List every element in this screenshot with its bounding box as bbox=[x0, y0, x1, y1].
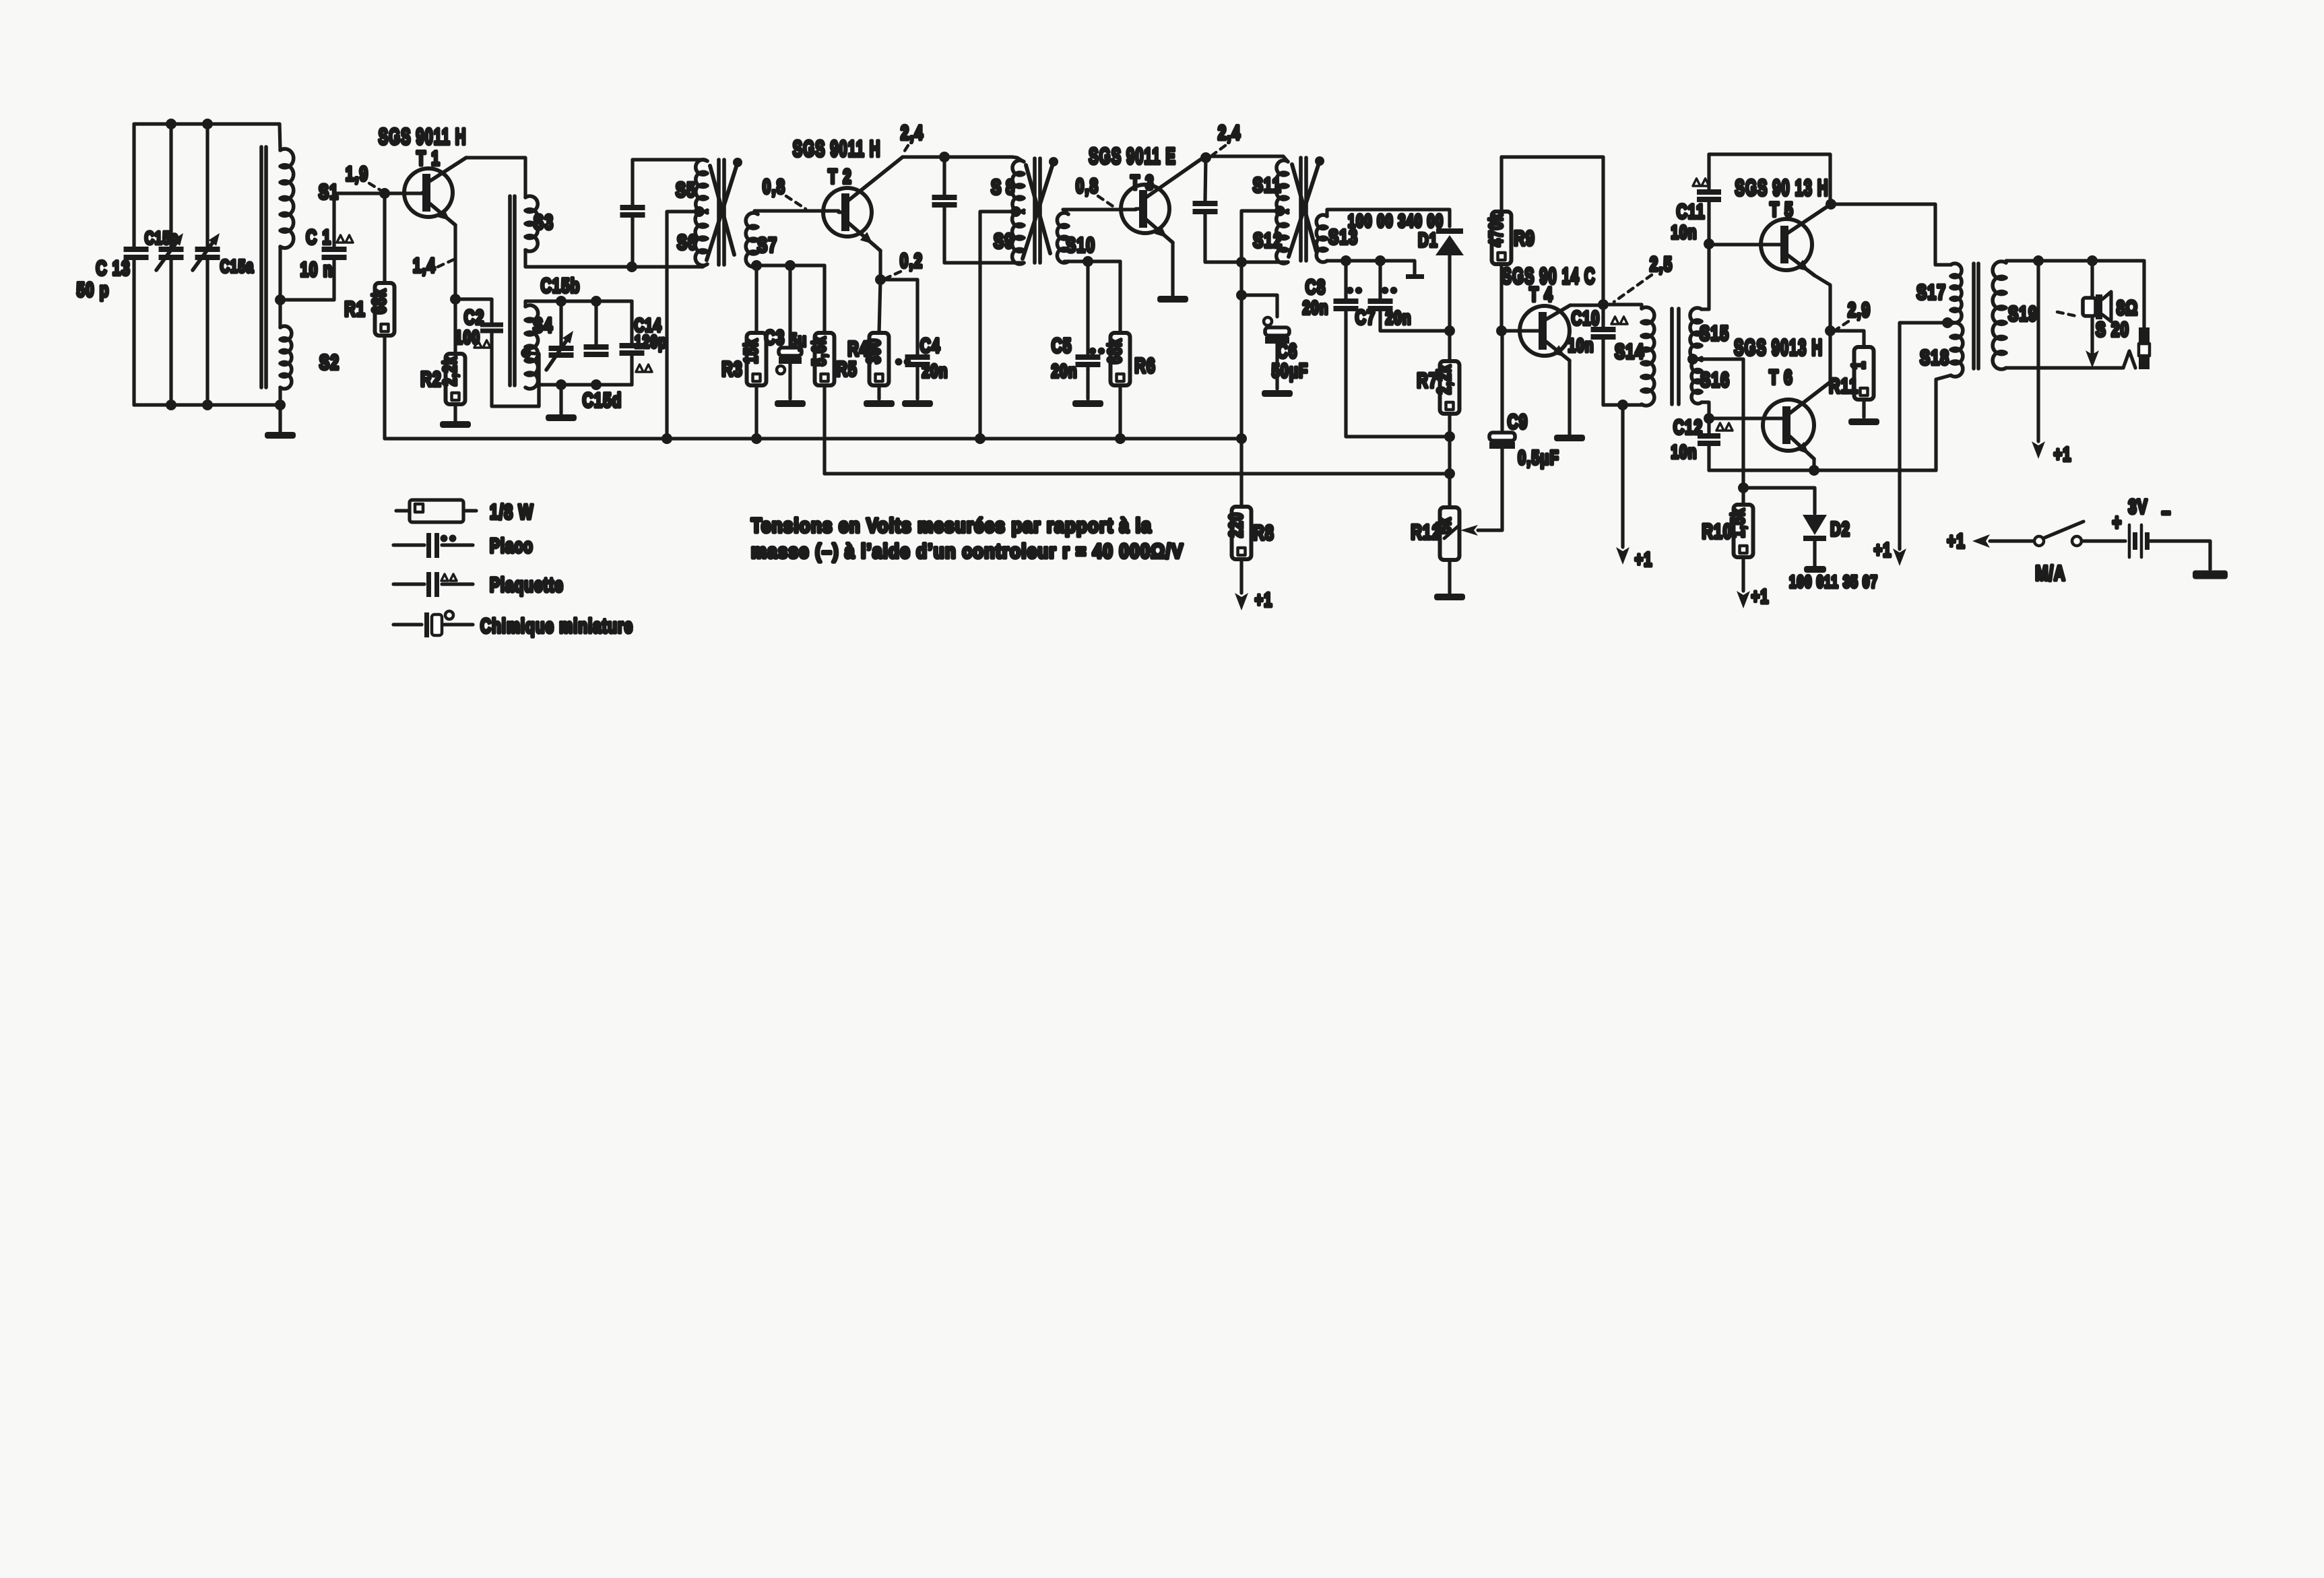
wire S15 top to C11 branch bbox=[1702, 247, 1709, 309]
svg-text:SGS 90 13 H: SGS 90 13 H bbox=[1735, 175, 1828, 200]
svg-text:C15b: C15b bbox=[541, 274, 581, 297]
wire T5 emitter down bbox=[1815, 276, 1830, 382]
svg-text:T 5: T 5 bbox=[1770, 198, 1793, 221]
node block top cap bbox=[591, 296, 602, 307]
ground C6 bbox=[1262, 390, 1293, 397]
node block bottom cap bbox=[591, 379, 602, 390]
ground C15 block bbox=[559, 385, 562, 414]
node bus1 right end bbox=[1236, 433, 1247, 444]
svg-text:C15d: C15d bbox=[583, 389, 622, 412]
inductor S17 bbox=[1951, 263, 1962, 323]
capacitor C13 bbox=[124, 247, 149, 252]
svg-text:68k: 68k bbox=[1105, 338, 1126, 364]
wire emitter node to C2 bbox=[455, 299, 492, 322]
svg-text:C3: C3 bbox=[765, 326, 785, 349]
resistor R11 1 bbox=[1830, 331, 1864, 347]
transistor T1 SGS 9011 H bbox=[404, 168, 453, 217]
capacitor C6 50uF chimique bbox=[1264, 317, 1272, 325]
svg-text:20n: 20n bbox=[1051, 361, 1077, 382]
node C7 top bbox=[1375, 255, 1386, 266]
svg-text:S5: S5 bbox=[676, 178, 696, 201]
inductor S1 bbox=[280, 124, 280, 150]
wire speaker to bottom rail bbox=[2090, 319, 2094, 356]
svg-text:S4: S4 bbox=[533, 313, 553, 337]
svg-text:1,4: 1,4 bbox=[413, 254, 436, 277]
node T4 base bbox=[1496, 325, 1507, 336]
node S8 cap top bbox=[939, 152, 950, 162]
svg-text:R8: R8 bbox=[1253, 521, 1274, 544]
svg-text:C4: C4 bbox=[920, 334, 941, 357]
node T1 emitter junction bbox=[450, 294, 461, 305]
svg-text:C15a: C15a bbox=[220, 256, 254, 276]
trimmer capacitor C15c bbox=[159, 247, 184, 252]
svg-text:C5: C5 bbox=[1052, 334, 1072, 357]
capacitor C1 bbox=[322, 247, 347, 252]
battery 3V bbox=[2128, 525, 2131, 557]
node C5 top bbox=[1083, 256, 1093, 267]
svg-text:D1: D1 bbox=[1418, 230, 1438, 251]
transformer core S1/S2 bbox=[259, 147, 263, 387]
svg-text:120p: 120p bbox=[635, 332, 667, 352]
resistor R5 5,6k bbox=[822, 265, 826, 333]
inductor S10 bbox=[1057, 213, 1068, 263]
capacitor S5 tank bbox=[631, 160, 634, 205]
node R7 bottom bbox=[1444, 431, 1455, 442]
wire output stage bottom rail bbox=[1709, 468, 1936, 472]
wire S13 bottom rail bbox=[1327, 261, 1415, 274]
inductor S16 bbox=[1691, 359, 1702, 404]
wire S13 box top bbox=[1327, 210, 1450, 226]
svg-text:1/8 W: 1/8 W bbox=[490, 500, 534, 524]
svg-text:R4: R4 bbox=[847, 337, 869, 360]
jack contact spring bbox=[2120, 351, 2135, 368]
resistor R8 220 bbox=[1239, 439, 1243, 507]
node S2 bottom bbox=[275, 400, 286, 410]
node T6 base bbox=[1704, 413, 1714, 424]
svg-text:+1: +1 bbox=[1751, 586, 1770, 608]
legend resistor 1/8 W bbox=[396, 509, 410, 512]
transistor T4 SGS 90 14 C bbox=[1520, 306, 1570, 356]
wire S16 bottom to base node bbox=[1702, 402, 1709, 418]
node bus1 R6 bbox=[1115, 433, 1126, 444]
node speaker rail left bbox=[2033, 255, 2044, 266]
inductor S7 bbox=[746, 213, 758, 267]
resistor R3 15k bbox=[754, 265, 758, 333]
resistor R4 390 bbox=[879, 280, 880, 333]
svg-text:2,2k: 2,2k bbox=[440, 356, 461, 386]
svg-text:R2: R2 bbox=[420, 367, 442, 391]
svg-text:15k: 15k bbox=[741, 338, 762, 364]
wire tap to bus via C6 tee bbox=[1241, 211, 1280, 439]
ground antenna block bbox=[278, 405, 282, 431]
node S15/S16 tap bbox=[1687, 354, 1698, 365]
legend capacitor Chimique miniature bbox=[393, 623, 422, 626]
svg-text:S12: S12 bbox=[1253, 228, 1283, 252]
svg-text:R6: R6 bbox=[1134, 354, 1156, 377]
wire S5 block top bbox=[633, 158, 703, 161]
svg-text:C15c: C15c bbox=[145, 228, 179, 248]
svg-text:T 6: T 6 bbox=[1769, 366, 1793, 389]
svg-text:+: + bbox=[2112, 511, 2123, 534]
svg-text:R5: R5 bbox=[836, 357, 858, 381]
wire base node to T1 bbox=[385, 191, 422, 195]
svg-text:S9: S9 bbox=[994, 229, 1014, 253]
svg-text:C11: C11 bbox=[1677, 200, 1706, 223]
transformer core S3/S4 bbox=[508, 196, 512, 385]
svg-text:T 1: T 1 bbox=[416, 147, 440, 170]
inductor S6 bbox=[695, 212, 707, 265]
ground R2 bbox=[453, 404, 457, 422]
ground T4 emitter bbox=[1554, 435, 1585, 441]
svg-text:R3: R3 bbox=[721, 357, 743, 381]
wire T4 emitter to ground bbox=[1568, 360, 1571, 434]
wire switch to battery bbox=[2081, 539, 2125, 542]
wire T6 base bbox=[1709, 416, 1782, 420]
svg-text:+1: +1 bbox=[2054, 444, 2072, 466]
svg-text:S2: S2 bbox=[319, 350, 340, 374]
wire T2 emitter bbox=[878, 251, 882, 280]
inductor S9 bbox=[1012, 212, 1024, 264]
svg-text:100 011 35 07: 100 011 35 07 bbox=[1789, 572, 1878, 591]
node C11 bottom bbox=[1704, 239, 1714, 249]
wire T1 collector to S3 bbox=[466, 158, 525, 197]
wire S19 bottom rail bbox=[2006, 366, 2120, 369]
node bottom junction C15a bbox=[202, 400, 213, 410]
svg-text:S11: S11 bbox=[1253, 173, 1282, 197]
svg-text:Plaquette: Plaquette bbox=[490, 573, 564, 596]
wire T5 collector to S17 bbox=[1831, 204, 1951, 265]
capacitor C2 100 bbox=[480, 323, 503, 327]
svg-text:C8: C8 bbox=[1305, 276, 1326, 298]
node T2 emitter junction bbox=[875, 274, 886, 285]
svg-text:0,8: 0,8 bbox=[1076, 175, 1099, 197]
trimmer capacitor C15 block bbox=[559, 301, 562, 346]
node bus1 S5 drop bbox=[661, 433, 672, 444]
svg-text:S15: S15 bbox=[1700, 321, 1729, 345]
svg-text:T 4: T 4 bbox=[1529, 283, 1553, 306]
inductor S8 bbox=[1012, 160, 1024, 212]
wire T6 emitter to rail bbox=[1812, 459, 1815, 470]
svg-text:68k: 68k bbox=[369, 288, 390, 314]
svg-text:8Ω: 8Ω bbox=[2117, 296, 2138, 319]
core output transformer bbox=[1972, 263, 1976, 369]
wire C8 to R7 bottom bbox=[1346, 311, 1448, 437]
wire T3 collector rail bbox=[1205, 154, 1283, 158]
wire C15b block top bbox=[525, 301, 632, 307]
diode D1 bbox=[1436, 228, 1463, 234]
svg-text:R11: R11 bbox=[1829, 374, 1859, 398]
wire tap to +1 bbox=[1900, 323, 1947, 549]
loudspeaker S20 8 ohm bbox=[2090, 261, 2094, 296]
node bus2 right end bbox=[1444, 468, 1455, 479]
ground T3 emitter bbox=[1157, 296, 1188, 303]
node S11 cap top bbox=[1200, 152, 1211, 163]
svg-text:S19: S19 bbox=[2008, 302, 2038, 325]
capacitor block middle bbox=[594, 301, 598, 344]
svg-text:S6: S6 bbox=[677, 230, 697, 254]
wire battery to ground bbox=[2149, 541, 2210, 569]
inductor S2 bbox=[280, 326, 292, 389]
svg-text:SGS 9011 E: SGS 9011 E bbox=[1089, 144, 1176, 168]
svg-text:S 8: S 8 bbox=[991, 175, 1015, 199]
svg-text:10n: 10n bbox=[1671, 222, 1697, 243]
wire S5/S6 tap to bus bbox=[667, 212, 699, 439]
node S17/S18 tap bbox=[1942, 317, 1953, 328]
svg-text:C12: C12 bbox=[1673, 416, 1703, 439]
wire main bus 1 bbox=[386, 437, 1241, 440]
svg-text:R1: R1 bbox=[344, 297, 366, 321]
svg-text:C9: C9 bbox=[1508, 410, 1528, 433]
inductor S14 bbox=[1642, 307, 1654, 406]
svg-text:C10: C10 bbox=[1572, 308, 1601, 329]
node R10 branch bbox=[1738, 482, 1749, 493]
ground C5 bbox=[1072, 400, 1103, 407]
node R3 top bbox=[751, 260, 762, 271]
wire T5 box top bbox=[1709, 154, 1830, 203]
node S11/S12 tap bbox=[1274, 206, 1285, 216]
capacitor C3 5u chimique bbox=[788, 265, 792, 346]
wire T4 collector to node bbox=[1570, 303, 1602, 307]
svg-text:S14: S14 bbox=[1615, 340, 1644, 363]
earphone jack bbox=[2142, 261, 2145, 327]
inductor S5 bbox=[696, 160, 707, 212]
wire C2 to block bottom bbox=[492, 334, 539, 406]
core driver transformer bbox=[1670, 309, 1674, 404]
svg-text:S7: S7 bbox=[757, 233, 777, 257]
svg-text:+1: +1 bbox=[1947, 530, 1966, 553]
svg-text:100 00 340 00: 100 00 340 00 bbox=[1348, 211, 1444, 232]
svg-text:C 1: C 1 bbox=[306, 226, 331, 249]
svg-text:2,4: 2,4 bbox=[901, 121, 924, 144]
inductor S3 bbox=[525, 196, 538, 251]
resistor R7 2,2k bbox=[1448, 331, 1451, 361]
svg-text:S10: S10 bbox=[1066, 233, 1095, 257]
svg-text:0,5μF: 0,5μF bbox=[1518, 447, 1559, 469]
capacitor S11 tank bbox=[1205, 158, 1206, 201]
node bus1 R3 bbox=[751, 433, 762, 444]
node T5 collector bbox=[1826, 199, 1836, 210]
svg-text:5,6k: 5,6k bbox=[809, 336, 830, 367]
svg-text:C7: C7 bbox=[1355, 306, 1376, 329]
wire T1 emitter down bbox=[453, 225, 457, 299]
capacitor C4 20n bbox=[880, 280, 917, 354]
resistor R6 68k bbox=[1118, 261, 1122, 333]
wire T3 emitter to ground bbox=[1171, 243, 1174, 295]
wire antenna-block top rail bbox=[134, 122, 280, 125]
volume pot R12 5k bbox=[1448, 474, 1451, 507]
svg-text:S17: S17 bbox=[1916, 280, 1946, 304]
node detector output bbox=[1444, 325, 1455, 336]
switch M/A bbox=[2034, 536, 2044, 546]
inductor S12 bbox=[1277, 212, 1288, 263]
inductor S18 bbox=[1951, 323, 1963, 377]
node S12 bottom crossing bbox=[1236, 257, 1247, 267]
transistor T2 SGS 9011 H bbox=[823, 188, 872, 236]
capacitor C5 20n bbox=[1086, 261, 1089, 354]
svg-text:3V: 3V bbox=[2128, 495, 2148, 518]
capacitor C14 120p bbox=[630, 301, 633, 343]
wire rail to S18 bottom bbox=[1936, 375, 1951, 470]
wire S10 bottom rail bbox=[1064, 259, 1120, 263]
svg-text:0,8: 0,8 bbox=[763, 175, 785, 198]
svg-text:Placo: Placo bbox=[490, 534, 534, 557]
ground R11 bbox=[1848, 418, 1879, 425]
wire to D2 bbox=[1743, 488, 1815, 513]
svg-text:SGS 9011 H: SGS 9011 H bbox=[793, 136, 881, 161]
node T1 base bbox=[379, 188, 390, 199]
svg-text:10n: 10n bbox=[1671, 442, 1697, 463]
ground battery bbox=[2193, 571, 2228, 579]
wire branch C15a bbox=[205, 124, 209, 247]
svg-text:10 n: 10 n bbox=[300, 258, 333, 281]
node emitter junction T5/T6 bbox=[1825, 325, 1836, 336]
ground R4 bbox=[864, 400, 895, 407]
svg-text:0,2: 0,2 bbox=[900, 249, 923, 272]
capacitor C8 20n bbox=[1344, 261, 1347, 298]
node top junction C15a bbox=[202, 119, 213, 129]
wire S8/S9 tap to bus bbox=[980, 212, 1016, 439]
svg-text:10n: 10n bbox=[1568, 336, 1594, 356]
wire C7 to detector node bbox=[1380, 311, 1448, 331]
capacitor S8 tank bbox=[942, 157, 946, 195]
svg-text:1,9: 1,9 bbox=[346, 162, 368, 185]
transistor T3 SGS 9011 E bbox=[1121, 185, 1169, 233]
node speaker top bbox=[2087, 255, 2098, 266]
wire S4 tap bbox=[521, 348, 531, 358]
wire T4 box top bbox=[1502, 157, 1603, 305]
wire left branch C13 bbox=[132, 124, 135, 247]
svg-text:R9: R9 bbox=[1514, 226, 1535, 250]
node top junction C15c bbox=[166, 119, 176, 129]
svg-text:C6: C6 bbox=[1277, 340, 1298, 362]
wire C15b block bottom bbox=[539, 383, 632, 386]
ground C4 bbox=[902, 400, 933, 407]
wire C12 to rail bbox=[1707, 446, 1710, 470]
inductor S19 bbox=[1993, 261, 2006, 369]
svg-text:2,9: 2,9 bbox=[1848, 298, 1871, 321]
wire antenna-block bottom rail bbox=[134, 403, 280, 406]
svg-text:Chimique miniature: Chimique miniature bbox=[480, 614, 633, 637]
svg-text:50 p: 50 p bbox=[77, 278, 110, 301]
node C6 tee bbox=[1236, 290, 1247, 301]
capacitor C11 10n bbox=[1707, 154, 1710, 189]
wire S7 bottom rail bbox=[753, 263, 825, 267]
core S8/S9 with tuning arrows bbox=[1033, 158, 1037, 263]
capacitor C10 10n bbox=[1601, 305, 1605, 327]
capacitor C9 0,5uF bbox=[1500, 335, 1504, 430]
wire S14 bottom bbox=[1603, 404, 1642, 405]
wire T2 collector rail bbox=[903, 155, 1012, 158]
svg-text:SGS 9011 H: SGS 9011 H bbox=[379, 124, 467, 149]
svg-text:20n: 20n bbox=[1385, 308, 1411, 329]
wire C6 branch bbox=[1241, 295, 1277, 317]
legend capacitor Plaquette bbox=[393, 582, 424, 586]
node T6 emitter rail bbox=[1809, 465, 1819, 476]
svg-text:Tensions en Volts mesurées: Tensions en Volts mesurées par rapport à… bbox=[751, 514, 1152, 536]
resistor R10 1,5k bbox=[1741, 488, 1745, 505]
svg-text:C 13: C 13 bbox=[96, 257, 130, 280]
diode D2 bbox=[1803, 515, 1827, 535]
node S1/S2 tap bbox=[275, 294, 286, 305]
svg-text:S 20: S 20 bbox=[2096, 318, 2129, 341]
wire S10 to T3 base bbox=[1063, 210, 1136, 214]
node block top varcap bbox=[556, 296, 567, 307]
svg-text:220: 220 bbox=[1226, 512, 1247, 538]
inductor S11 bbox=[1277, 160, 1288, 212]
svg-text:masse (–) à l’aide d’un con: masse (–) à l’aide d’un controleur r = 4… bbox=[751, 540, 1184, 562]
wire to switch bbox=[1990, 539, 2034, 542]
svg-text:470k: 470k bbox=[1486, 213, 1507, 247]
inductor S15 bbox=[1690, 308, 1702, 359]
core S11/S12 with tuning arrows bbox=[1299, 158, 1303, 261]
ground R12 bbox=[1434, 594, 1465, 600]
svg-text:SGS 9013 H: SGS 9013 H bbox=[1734, 335, 1823, 360]
svg-text:R12: R12 bbox=[1411, 520, 1441, 544]
svg-text:+1: +1 bbox=[1255, 590, 1273, 611]
node S14 bottom bbox=[1617, 400, 1628, 410]
core S5/S6 with tuning arrows bbox=[717, 160, 721, 265]
wire C1 to T1 base node bbox=[334, 193, 383, 247]
transistor T5 SGS 90 13 H bbox=[1761, 219, 1812, 270]
inductor S13 bbox=[1316, 215, 1327, 262]
capacitor C7 20n bbox=[1378, 261, 1382, 298]
wire collector to S14 bbox=[1603, 305, 1642, 309]
wire S7 to T2 base bbox=[754, 211, 839, 214]
resistor R2 2,2k bbox=[453, 299, 457, 354]
svg-text:1: 1 bbox=[1848, 361, 1869, 370]
svg-text:S16: S16 bbox=[1700, 368, 1730, 391]
wire C9 to R12 wiper bbox=[1478, 449, 1502, 530]
wire C1 tap to transformer bbox=[280, 260, 334, 300]
svg-text:R7: R7 bbox=[1417, 369, 1438, 392]
node block bottom varcap bbox=[556, 379, 567, 390]
node C8 top bbox=[1341, 255, 1351, 266]
resistor R9 470k bbox=[1499, 157, 1503, 212]
svg-text:–: – bbox=[2162, 500, 2171, 524]
wire S3 bottom rail bbox=[525, 250, 703, 267]
svg-text:20n: 20n bbox=[922, 361, 948, 382]
svg-text:T 3: T 3 bbox=[1130, 171, 1154, 194]
ground C3 bbox=[775, 400, 806, 407]
trimmer capacitor C15a bbox=[195, 247, 220, 252]
svg-text:20n: 20n bbox=[1302, 298, 1328, 319]
wire tap to R10 branch bbox=[1693, 359, 1743, 488]
svg-text:T 2: T 2 bbox=[828, 165, 851, 188]
svg-text:D2: D2 bbox=[1830, 519, 1850, 540]
svg-text:R10: R10 bbox=[1702, 519, 1732, 543]
svg-text:5μ: 5μ bbox=[789, 330, 807, 351]
node S5/S6 tap bbox=[694, 206, 705, 217]
inductor S4 bbox=[525, 305, 538, 389]
legend capacitor Placo bbox=[393, 543, 424, 546]
svg-text:C2: C2 bbox=[464, 306, 485, 329]
wire +1 drop S14 bbox=[1621, 405, 1624, 547]
node S5 cap bottom bbox=[626, 261, 637, 272]
svg-text:+1: +1 bbox=[1635, 549, 1653, 571]
svg-text:S18: S18 bbox=[1920, 346, 1949, 369]
node T4 collector bbox=[1598, 299, 1609, 310]
wire main bus 2 bbox=[825, 472, 1450, 475]
wire S1 to S2 bbox=[278, 247, 282, 327]
wire branch C15c bbox=[169, 124, 172, 247]
svg-text:+1: +1 bbox=[1874, 540, 1892, 561]
svg-text:S3: S3 bbox=[534, 210, 554, 234]
wire +1 drop S19 bbox=[2036, 261, 2040, 441]
svg-text:2,4: 2,4 bbox=[1218, 121, 1241, 144]
svg-text:M/A: M/A bbox=[2035, 561, 2065, 585]
node bus1 S8 drop bbox=[975, 433, 986, 444]
transistor T6 SGS 9013 H bbox=[1763, 400, 1814, 451]
